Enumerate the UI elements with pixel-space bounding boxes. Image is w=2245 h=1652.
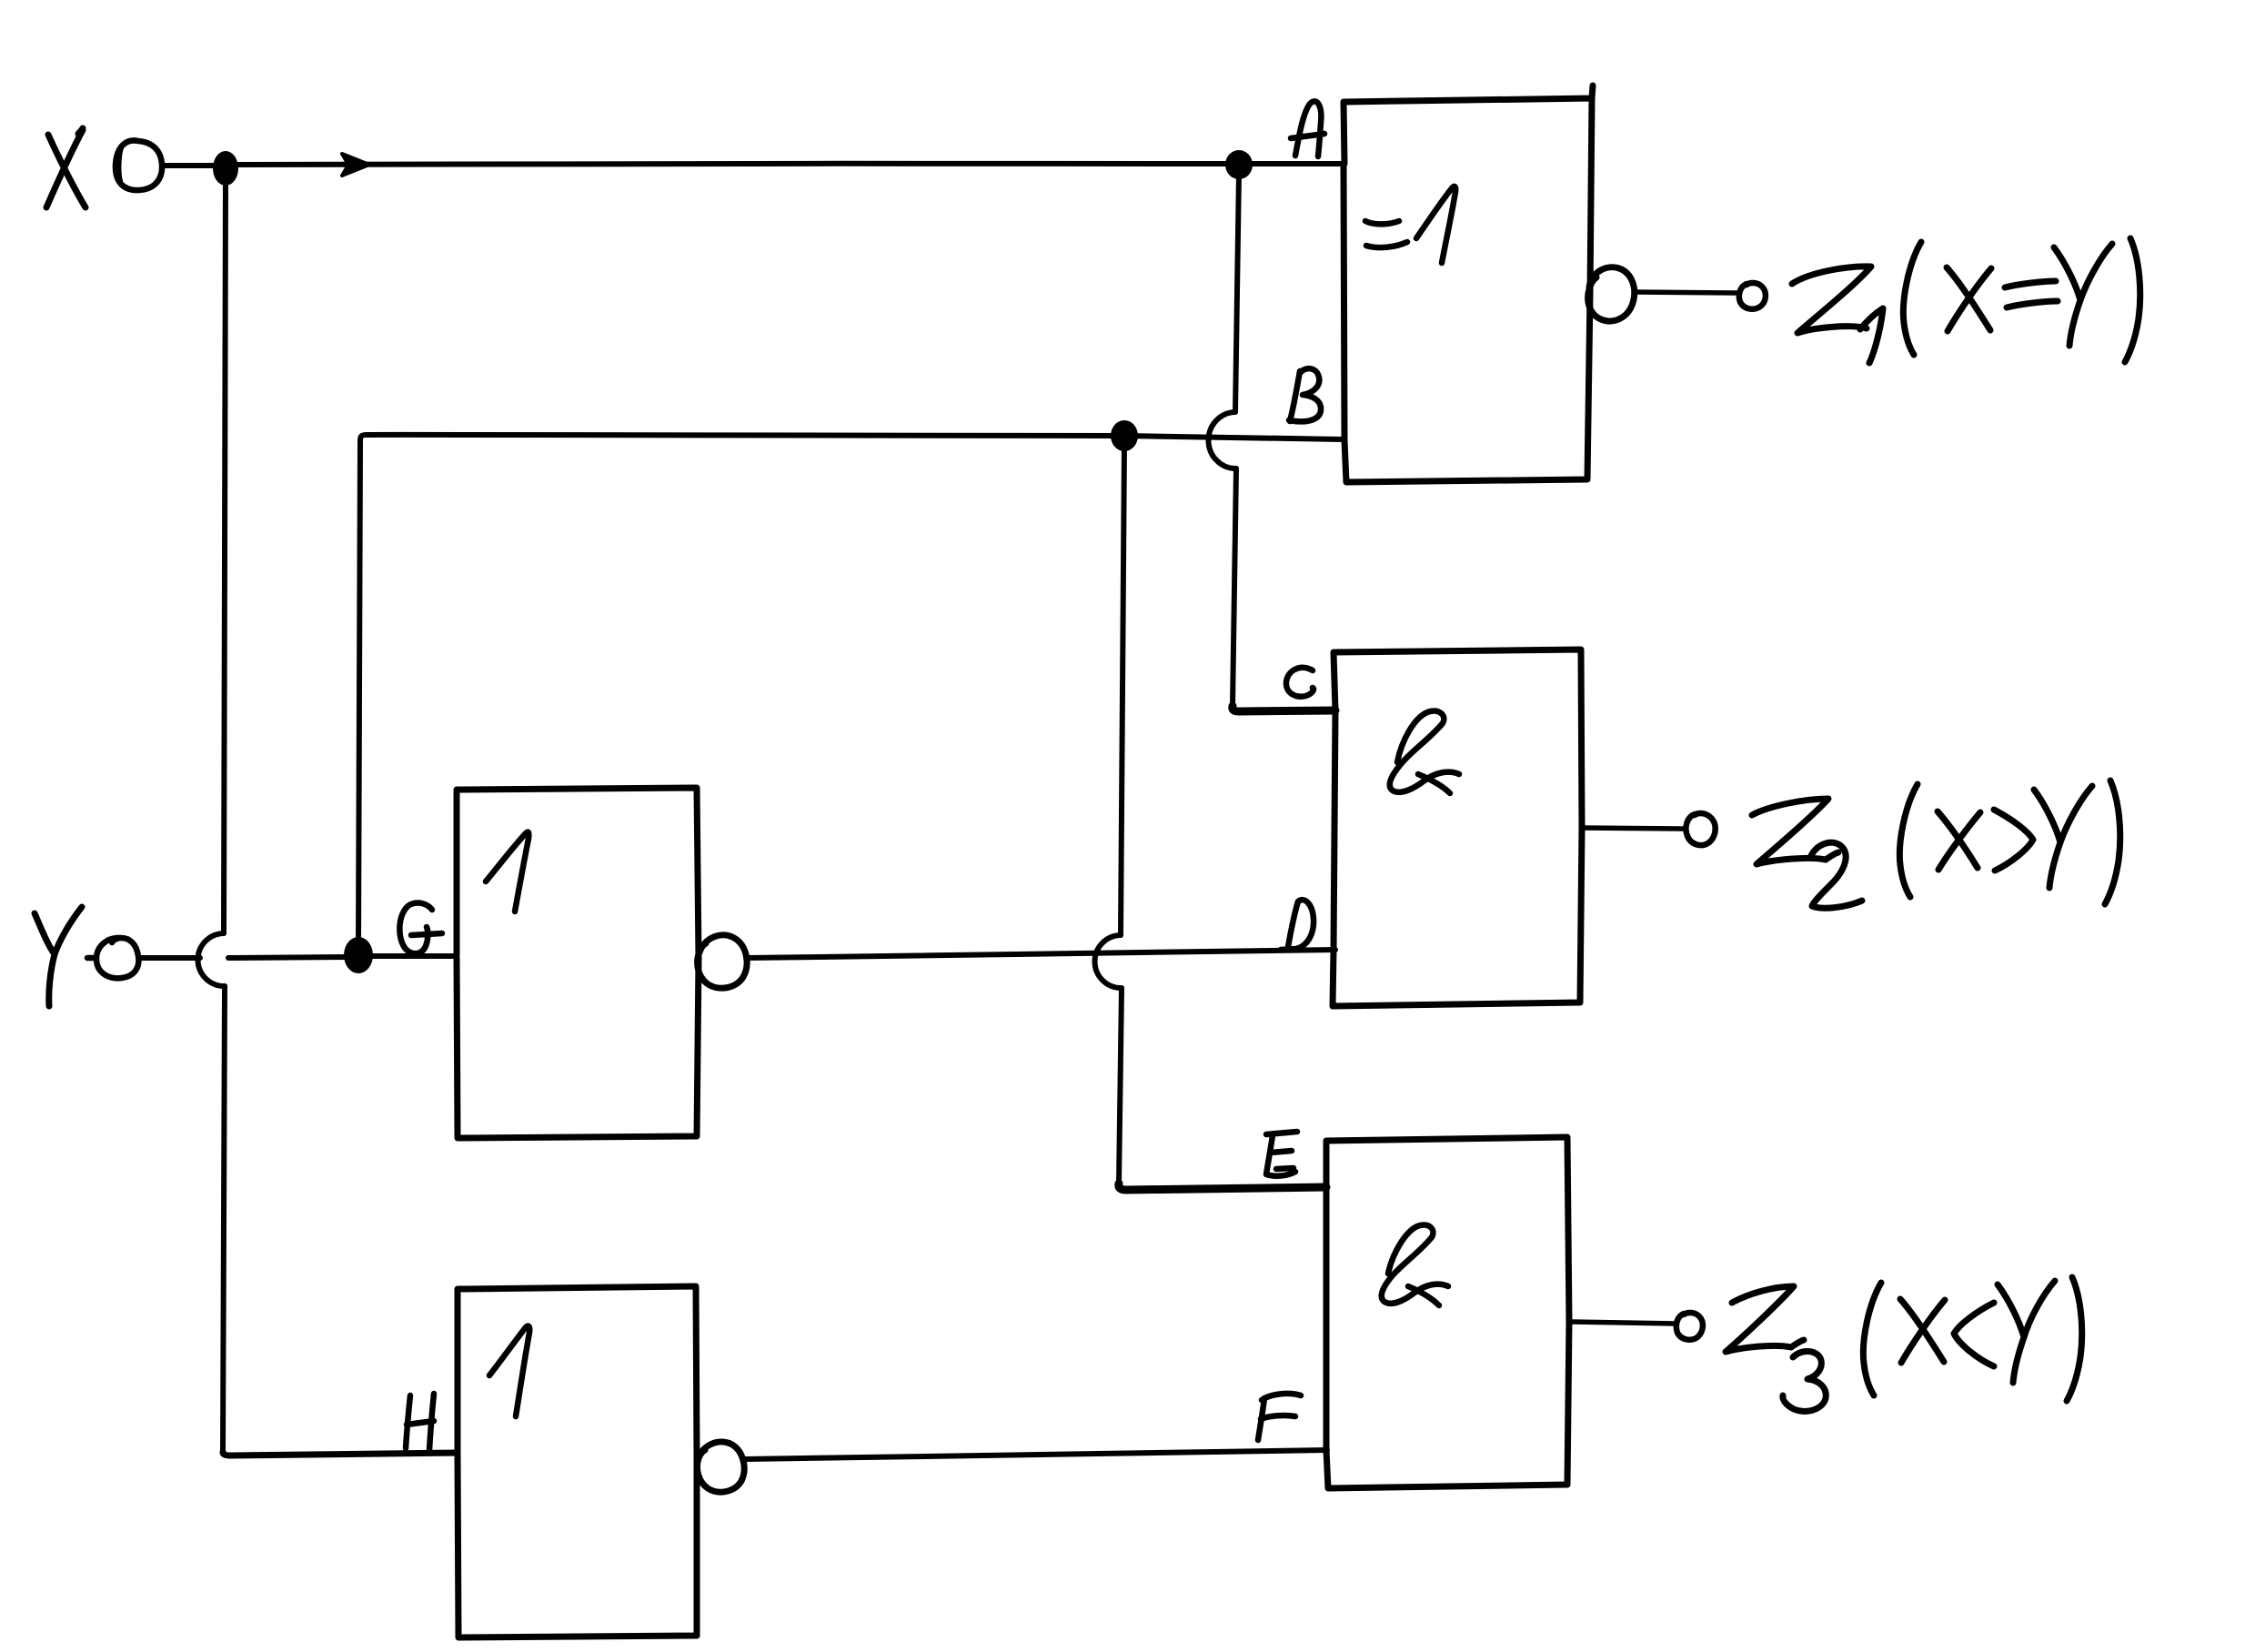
node C pin label [1286,668,1314,697]
gate AND2 box [1333,650,1582,1006]
wire Y terminal to hop [138,955,200,961]
gate XNOR value label =1 [1365,186,1455,263]
gate AND3 box [1326,1137,1569,1488]
node Y input label [35,907,82,1006]
inverter G output bubble [698,935,747,988]
gate AND2 value label & [1390,710,1459,793]
wire X horizontal run to node A [237,164,1228,165]
node A pin label [1291,101,1324,156]
inverter H value label 1 [489,1326,529,1416]
gate AND3 value label & [1382,1224,1448,1305]
wire B horizontal to XNOR input [367,435,1343,439]
net label Z2 (x>Y) [1752,781,2120,908]
arrowhead on X wire [342,154,369,176]
wire E horizontal into AND3 [1119,1184,1326,1190]
junction Y (dot) [344,937,373,973]
wire vertical A to C (with hop over B) [1208,173,1239,706]
wire vertical from Y up to B [358,435,367,948]
inverter G value label 1 [486,832,529,912]
node D pin label [1281,900,1314,950]
terminal Z3 [1676,1313,1703,1340]
node X input label [46,128,86,207]
wire F from inverter H to AND3 input [745,1450,1327,1459]
wire A into XNOR input [1252,161,1344,166]
node B pin label [1289,368,1321,421]
gate XNOR output bubble [1588,267,1635,321]
inverter H output bubble [697,1442,744,1492]
inverter H box [458,1286,697,1637]
wire C horizontal into AND2 [1233,706,1335,711]
wire X terminal to X junction [162,163,215,168]
node H pin label [406,1394,434,1450]
terminal Z1 [1739,283,1766,309]
terminal Y [87,938,138,978]
gate XNOR box [1344,86,1593,482]
terminal X [116,140,162,190]
wire Z3 output [1570,1322,1676,1324]
wire Z2 output [1583,828,1684,829]
wire H horizontal into inverter H input [223,1452,458,1456]
wire Y hop to junction Y [228,957,350,958]
terminal Z2 [1686,813,1715,845]
net label Z1 (x=Y) [1792,238,2140,363]
wire vertical B to E (with hop over D) [1095,444,1124,1184]
junction A (dot) [1225,150,1253,179]
node E pin label [1266,1132,1297,1176]
net label Z3 (X<Y) [1726,1277,2082,1411]
junction B (dot) [1111,420,1138,451]
junction X (dot) [213,151,238,186]
node F pin label [1258,1394,1301,1440]
wire vertical X to H (with hop over Y) [198,176,226,1452]
inverter G box [457,788,699,1138]
node G pin label [399,902,442,953]
wire Y junction to inverter G input [371,953,457,959]
wire Z1 output [1634,292,1739,293]
wire D from inverter G to AND2 input [746,950,1335,958]
